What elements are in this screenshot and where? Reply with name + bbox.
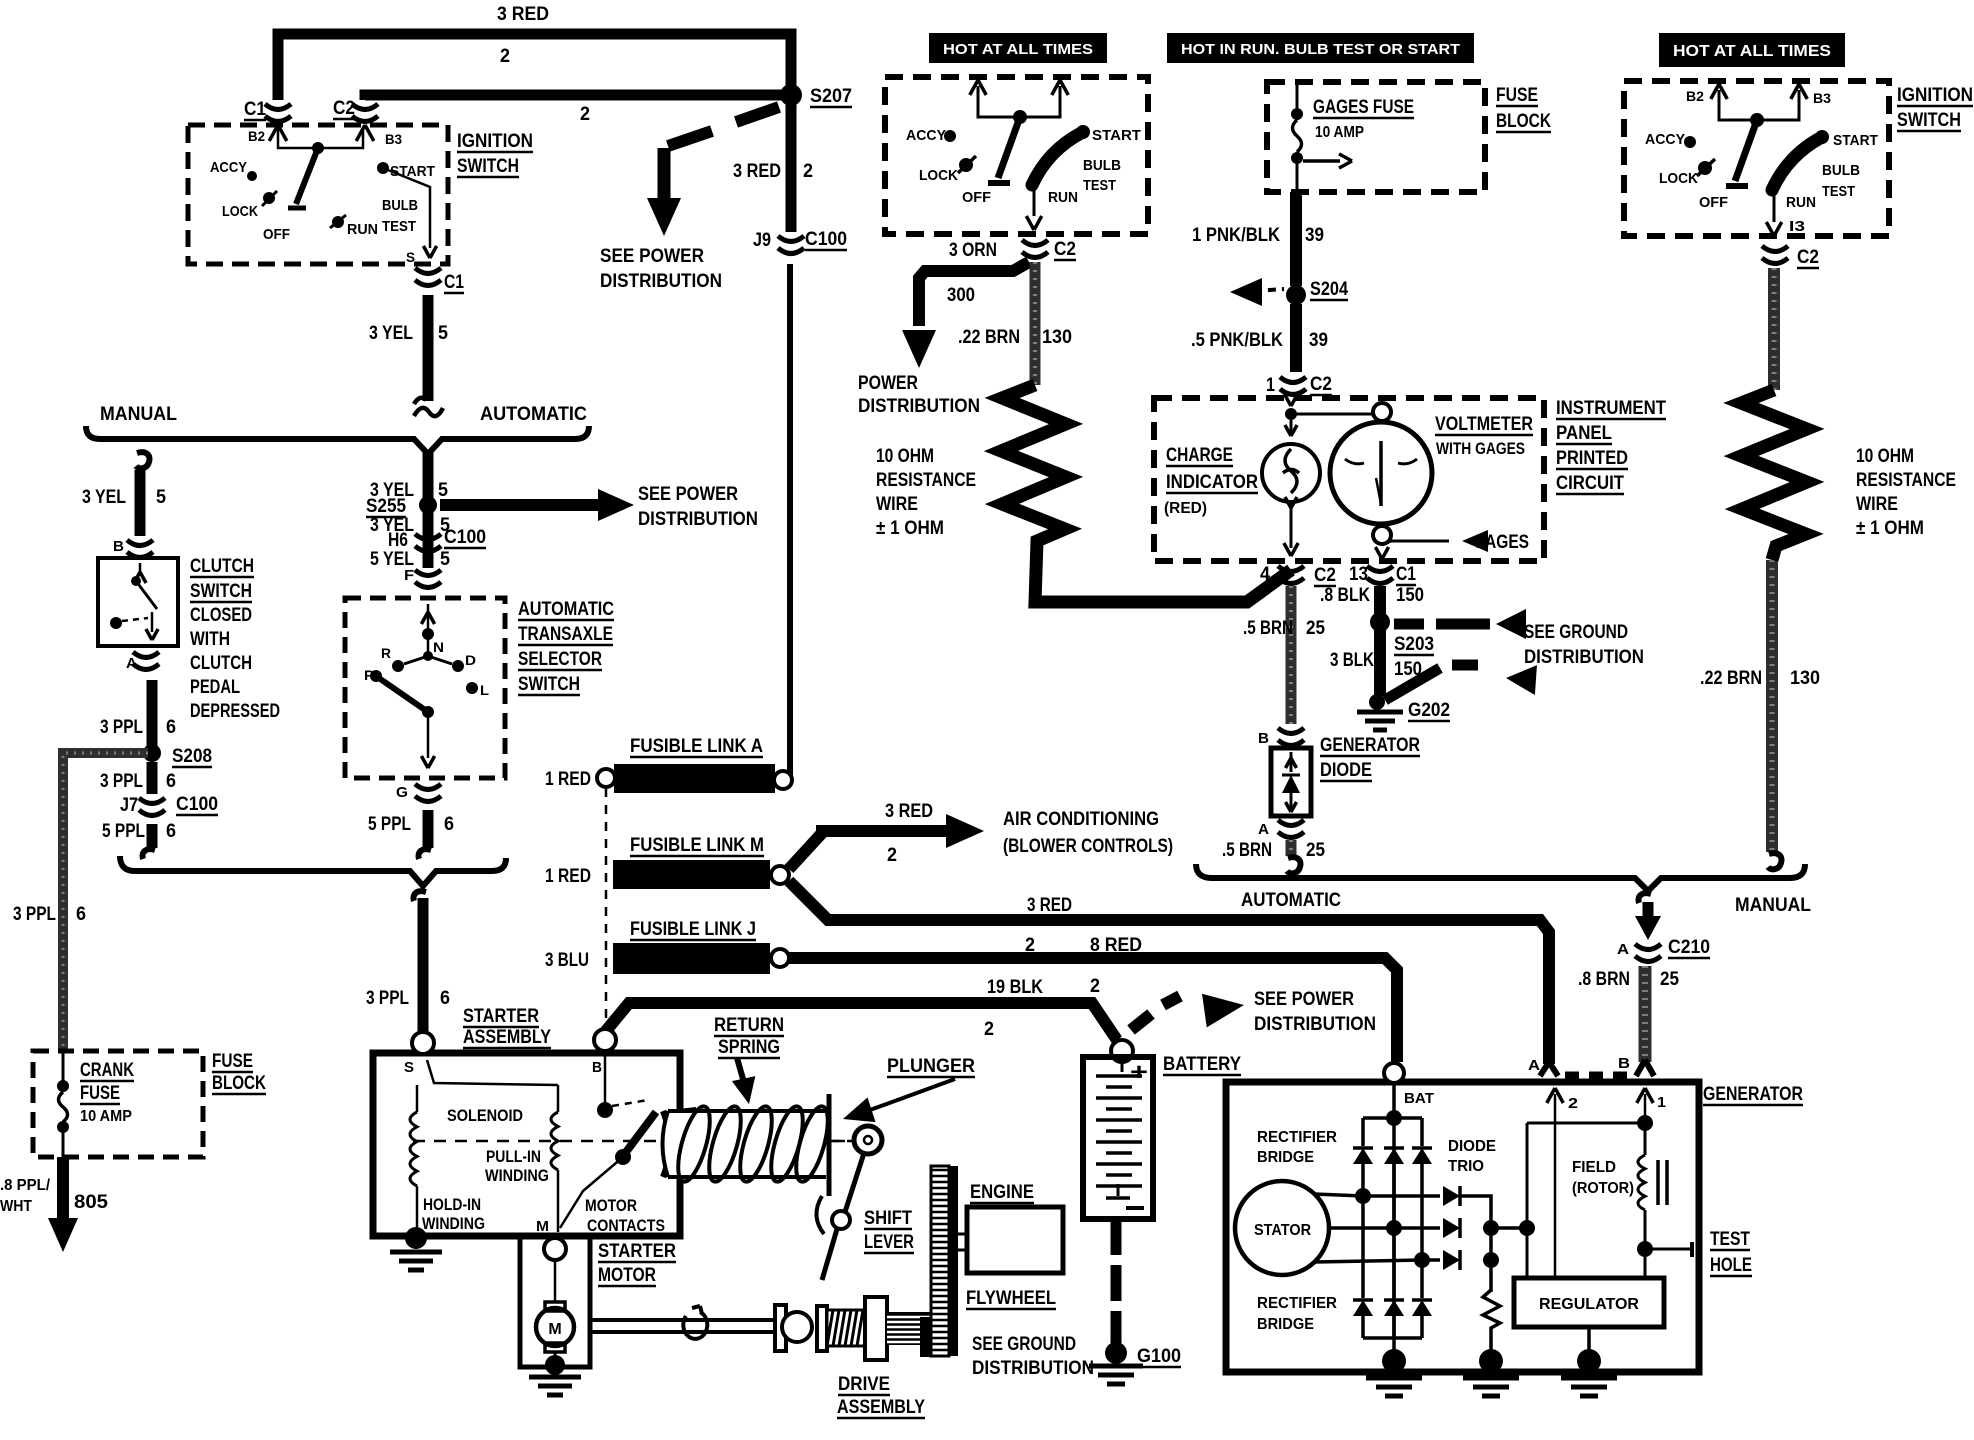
- label 10 OHM RESISTANCE WIRE +-1 OHM (right): [1856, 446, 1956, 539]
- svg-text:RUN: RUN: [347, 221, 378, 238]
- label P: [364, 667, 374, 683]
- svg-text:25: 25: [1306, 840, 1325, 861]
- terminal 2: [1547, 1088, 1578, 1112]
- wire 5 PPL transaxle: [423, 810, 434, 848]
- svg-text:150: 150: [1394, 659, 1422, 680]
- drive gear: [865, 1297, 887, 1360]
- svg-text:CLOSED: CLOSED: [190, 605, 252, 626]
- svg-text:H6: H6: [388, 530, 408, 551]
- svg-text:± 1 OHM: ± 1 OHM: [876, 518, 944, 539]
- label 150: [1396, 585, 1424, 606]
- svg-text:OFF: OFF: [263, 226, 290, 243]
- pin B2: [248, 125, 287, 144]
- svg-text:DISTRIBUTION: DISTRIBUTION: [972, 1358, 1094, 1379]
- svg-text:WITH: WITH: [190, 629, 230, 650]
- svg-text:MANUAL: MANUAL: [1735, 895, 1811, 916]
- ignition switch (middle) box: [885, 77, 1148, 234]
- regulator ground wire: [1587, 1327, 1591, 1356]
- label VOLTMETER WITH GAGES: [1435, 414, 1533, 458]
- svg-text:19 BLK: 19 BLK: [987, 977, 1043, 998]
- label 1 RED: [545, 769, 591, 790]
- label R: [381, 645, 391, 661]
- svg-text:SPRING: SPRING: [718, 1037, 780, 1058]
- svg-text:PLUNGER: PLUNGER: [887, 1056, 975, 1077]
- svg-text:FUSE: FUSE: [1496, 85, 1538, 106]
- svg-text:CLUTCH: CLUTCH: [190, 653, 252, 674]
- pin 13 connector C1: [1349, 564, 1416, 585]
- svg-text:TEST: TEST: [1083, 177, 1116, 194]
- svg-text:.5 PNK/BLK: .5 PNK/BLK: [1191, 330, 1283, 351]
- label FUSIBLE LINK M: [630, 835, 764, 856]
- label .8 PPL/ WHT: [0, 1177, 51, 1215]
- svg-text:5: 5: [438, 480, 448, 501]
- svg-text:6: 6: [76, 904, 86, 925]
- svg-text:3 YEL: 3 YEL: [82, 487, 126, 508]
- label RECTIFIER BRIDGE (lower): [1257, 1295, 1337, 1333]
- label 5: [440, 515, 450, 536]
- svg-text:VOLTMETER: VOLTMETER: [1435, 414, 1533, 435]
- generator grounds: [1366, 1349, 1617, 1396]
- label MANUAL: [100, 404, 177, 425]
- svg-text:SWITCH: SWITCH: [1897, 110, 1961, 131]
- svg-text:TEST: TEST: [1822, 183, 1855, 200]
- wire 3 PPL to starter S: [418, 898, 429, 1038]
- svg-text:WINDING: WINDING: [485, 1166, 549, 1185]
- contact ACCY: [210, 159, 257, 181]
- label FUSIBLE LINK A: [630, 736, 763, 757]
- svg-text:6: 6: [166, 717, 176, 738]
- wire below S208: [147, 762, 158, 794]
- label GENERATOR: [1703, 1084, 1803, 1105]
- drive splines: [887, 1312, 932, 1345]
- contact OFF: [263, 226, 290, 243]
- terminal BAT: [1384, 1063, 1434, 1107]
- connector C1 below ignition switch: [415, 268, 464, 293]
- bracket automatic/manual: [1196, 864, 1805, 891]
- ignition switch 1 rotor lever: [288, 148, 318, 208]
- terminal 1: [1637, 1088, 1666, 1111]
- contact OFF: [962, 189, 991, 206]
- wire .22 BRN manual side (gray): [1766, 560, 1778, 852]
- label 130: [1790, 668, 1820, 689]
- label 3 YEL: [369, 323, 413, 344]
- contact LOCK: [919, 156, 976, 184]
- svg-text:(BLOWER CONTROLS): (BLOWER CONTROLS): [1003, 836, 1173, 857]
- svg-text:ASSEMBLY: ASSEMBLY: [463, 1027, 551, 1048]
- generator diode: [1271, 748, 1311, 816]
- svg-text:BRIDGE: BRIDGE: [1257, 1316, 1314, 1333]
- svg-text:10 AMP: 10 AMP: [1315, 124, 1364, 141]
- label 25: [1660, 969, 1679, 990]
- svg-text:DISTRIBUTION: DISTRIBUTION: [638, 509, 758, 530]
- label 3 PPL (gray wire): [13, 904, 56, 925]
- label PLUNGER: [887, 1056, 975, 1077]
- wire 3 YEL to clutch switch: [135, 470, 146, 536]
- label AUTOMATIC: [480, 404, 587, 425]
- ignition switch (left) box: [188, 125, 448, 264]
- svg-text:10 OHM: 10 OHM: [876, 446, 934, 467]
- wire S203 to G202: [1374, 630, 1386, 696]
- contact LOCK: [222, 191, 277, 220]
- svg-text:S203: S203: [1394, 634, 1434, 655]
- splice S203: [1370, 612, 1434, 655]
- svg-text:3 RED: 3 RED: [885, 801, 933, 822]
- contact RUN: [1786, 194, 1816, 211]
- label BATTERY: [1163, 1054, 1241, 1075]
- svg-text:M: M: [548, 1321, 561, 1338]
- svg-text:L: L: [480, 682, 489, 698]
- resistance wire 10 ohm (right zigzag): [1741, 390, 1807, 560]
- label AIR CONDITIONING (BLOWER CONTROLS): [1003, 809, 1173, 857]
- ground distribution arrows: [1385, 609, 1537, 700]
- terminal A label: [1528, 1057, 1540, 1074]
- svg-text:S207: S207: [810, 86, 852, 107]
- label 25: [1306, 618, 1325, 639]
- svg-text:B: B: [1618, 1055, 1630, 1072]
- drive flange 2: [817, 1306, 827, 1351]
- svg-text:2: 2: [1568, 1095, 1578, 1112]
- label AUTOMATIC TRANSAXLE SELECTOR SWITCH: [518, 599, 614, 695]
- label DIODE TRIO: [1448, 1138, 1496, 1175]
- svg-text:2: 2: [887, 845, 897, 866]
- svg-text:BULB: BULB: [1822, 162, 1860, 179]
- svg-text:3 PPL: 3 PPL: [100, 771, 143, 792]
- label SEE POWER DISTRIBUTION: [638, 484, 758, 530]
- svg-text:25: 25: [1660, 969, 1679, 990]
- wire .5 BRN C2 to generator diode: [1286, 586, 1297, 724]
- svg-text:DRIVE: DRIVE: [838, 1374, 890, 1395]
- svg-text:ACCY: ACCY: [1645, 131, 1685, 148]
- svg-text:RESISTANCE: RESISTANCE: [1856, 470, 1956, 491]
- wire curl below bracket: [1639, 893, 1652, 903]
- svg-text:HOT AT ALL TIMES: HOT AT ALL TIMES: [943, 41, 1093, 58]
- svg-text:BLOCK: BLOCK: [1496, 111, 1551, 132]
- plunger dashed link: [413, 1140, 852, 1143]
- engine box: [957, 1207, 1063, 1273]
- ignition switch (right) box: [1624, 81, 1889, 236]
- ignition switch 2 internal bus: [978, 86, 1060, 124]
- label ENGINE: [970, 1182, 1034, 1203]
- fuse block (crank) box: [33, 1051, 203, 1157]
- svg-text:WHT: WHT: [0, 1198, 32, 1215]
- solenoid wiring S to pull-in: [417, 1060, 558, 1112]
- label .5 BRN: [1222, 840, 1272, 861]
- svg-text:DEPRESSED: DEPRESSED: [190, 701, 280, 722]
- rotor core bars: [1658, 1160, 1667, 1205]
- wire 3 RED (top feed to S207): [278, 34, 791, 100]
- contact RUN: [330, 215, 378, 238]
- svg-text:5: 5: [440, 549, 450, 570]
- wire to gages arrow: [1375, 530, 1488, 559]
- pin B3 arrow: [1052, 80, 1069, 95]
- svg-text:B: B: [592, 1059, 602, 1076]
- field rotor coil: [1637, 1123, 1653, 1278]
- svg-text:SEE POWER: SEE POWER: [600, 246, 704, 267]
- label RECTIFIER BRIDGE (upper): [1257, 1129, 1337, 1166]
- svg-text:SEE GROUND: SEE GROUND: [1524, 622, 1628, 643]
- svg-text:CHARGE: CHARGE: [1166, 445, 1233, 466]
- svg-text:CIRCUIT: CIRCUIT: [1556, 473, 1624, 494]
- wire battery to G100 (dashed): [1111, 1219, 1122, 1348]
- wire dashed to power distribution (battery): [1131, 988, 1246, 1030]
- svg-text:25: 25: [1306, 618, 1325, 639]
- terminal B label: [1618, 1055, 1630, 1072]
- connector B clutch switch: [113, 538, 153, 558]
- pin 4 connector C2: [1260, 564, 1336, 586]
- svg-text:PRINTED: PRINTED: [1556, 448, 1628, 469]
- battery terminal +: [1111, 1040, 1133, 1062]
- wire .5 PNK/BLK: [1290, 304, 1302, 372]
- svg-text:FIELD: FIELD: [1572, 1159, 1616, 1176]
- svg-text:S: S: [406, 249, 415, 265]
- svg-text:REGULATOR: REGULATOR: [1539, 1296, 1639, 1313]
- dashed connector line A-B: [1565, 1072, 1633, 1079]
- svg-text:F: F: [404, 567, 414, 584]
- generator BAT bus: [1363, 1083, 1422, 1356]
- label 39: [1309, 330, 1328, 351]
- label SEE GROUND DISTRIBUTION: [1524, 622, 1644, 668]
- svg-text:RECTIFIER: RECTIFIER: [1257, 1129, 1337, 1146]
- svg-text:5 PPL: 5 PPL: [102, 821, 145, 842]
- svg-text:STARTER: STARTER: [598, 1241, 676, 1262]
- svg-text:3 PPL: 3 PPL: [366, 988, 409, 1009]
- svg-text:C1: C1: [1396, 564, 1416, 585]
- svg-text:C100: C100: [444, 527, 486, 548]
- svg-text:39: 39: [1305, 225, 1324, 246]
- label TEST HOLE: [1710, 1229, 1752, 1276]
- pin I3: [1789, 218, 1805, 235]
- svg-text:S204: S204: [1310, 279, 1348, 300]
- wire 5 PPL below C100: [147, 824, 158, 848]
- label HOLD-IN WINDING: [422, 1195, 485, 1233]
- svg-text:3 RED: 3 RED: [1027, 895, 1072, 916]
- label IGNITION SWITCH (right): [1897, 85, 1973, 131]
- svg-text:5: 5: [438, 323, 448, 344]
- transaxle switch internals: [370, 604, 478, 768]
- svg-text:C2: C2: [333, 98, 355, 119]
- svg-text:PULL-IN: PULL-IN: [486, 1147, 541, 1166]
- svg-text:3 RED: 3 RED: [497, 4, 549, 25]
- wire end curl: [143, 849, 156, 859]
- connector A clutch switch: [126, 652, 159, 672]
- svg-text:A: A: [1258, 821, 1269, 838]
- svg-text:6: 6: [440, 988, 450, 1009]
- label FUSE BLOCK: [1496, 85, 1551, 132]
- wire 19 BLK battery to starter B: [605, 1003, 1117, 1040]
- svg-text:AIR CONDITIONING: AIR CONDITIONING: [1003, 809, 1159, 830]
- svg-text:MANUAL: MANUAL: [100, 404, 177, 425]
- svg-text:M: M: [536, 1218, 549, 1235]
- svg-text:AUTOMATIC: AUTOMATIC: [480, 404, 587, 425]
- flywheel gear: [920, 1166, 958, 1357]
- svg-text:.22 BRN: .22 BRN: [1700, 668, 1762, 689]
- connector C2 below right switch: [1762, 246, 1819, 268]
- diode trio output bus: [1460, 1196, 1535, 1292]
- svg-text:OFF: OFF: [1699, 194, 1728, 211]
- svg-text:CONTACTS: CONTACTS: [587, 1216, 665, 1235]
- svg-text:AUTOMATIC: AUTOMATIC: [1241, 890, 1341, 911]
- svg-text:RESISTANCE: RESISTANCE: [876, 470, 976, 491]
- drive ball: [782, 1312, 812, 1342]
- label AUTOMATIC: [1241, 890, 1341, 911]
- contact START: [1076, 125, 1141, 144]
- wire .8 PPL/WHT arrow down: [48, 1157, 78, 1252]
- svg-text:SELECTOR: SELECTOR: [518, 649, 602, 670]
- svg-text:G202: G202: [1408, 700, 1450, 721]
- svg-text:S208: S208: [172, 746, 212, 767]
- svg-text:BULB: BULB: [1083, 157, 1121, 174]
- svg-text:B2: B2: [1686, 88, 1704, 104]
- label 3 BLU: [545, 950, 589, 971]
- svg-text:C2: C2: [1054, 239, 1076, 260]
- connector A generator diode: [1258, 820, 1304, 838]
- ignition switch 2 rotor lever: [988, 117, 1020, 183]
- svg-text:SEE POWER: SEE POWER: [1254, 989, 1354, 1010]
- svg-text:SWITCH: SWITCH: [457, 156, 519, 177]
- label STARTER ASSEMBLY: [463, 1006, 551, 1048]
- wire 3 RED down to fusible link A: [787, 264, 793, 778]
- svg-text:CRANK: CRANK: [80, 1060, 134, 1081]
- contact BULB TEST: [1083, 157, 1121, 194]
- svg-text:5: 5: [156, 487, 166, 508]
- svg-text:C1: C1: [244, 99, 266, 120]
- svg-text:150: 150: [1396, 585, 1424, 606]
- label L: [480, 682, 489, 698]
- drive hatched coupling: [827, 1310, 865, 1346]
- svg-text:A: A: [1617, 941, 1629, 958]
- svg-text:LOCK: LOCK: [222, 203, 258, 220]
- svg-text:I3: I3: [1789, 218, 1805, 235]
- svg-text:INSTRUMENT: INSTRUMENT: [1556, 398, 1666, 419]
- label 1 RED: [545, 866, 591, 887]
- svg-text:1 RED: 1 RED: [545, 866, 591, 887]
- svg-text:INDICATOR: INDICATOR: [1166, 472, 1258, 493]
- label 19 BLK: [987, 977, 1043, 998]
- svg-text:B3: B3: [1813, 90, 1831, 106]
- label 6: [166, 717, 176, 738]
- label 6: [166, 771, 176, 792]
- svg-text:.5 BRN: .5 BRN: [1243, 618, 1293, 639]
- svg-text:BULB: BULB: [382, 197, 418, 214]
- test hole line: [1645, 1242, 1692, 1257]
- connector B generator diode: [1258, 728, 1304, 747]
- label .22 BRN: [958, 327, 1020, 348]
- label 150: [1394, 659, 1422, 680]
- rectifier bridge verticals: [1363, 1164, 1422, 1298]
- svg-text:SWITCH: SWITCH: [190, 581, 252, 602]
- label SEE POWER DISTRIBUTION: [600, 246, 722, 292]
- ignition switch 1 internal bus: [278, 128, 363, 154]
- svg-text:3 YEL: 3 YEL: [369, 323, 413, 344]
- ground G202: [1357, 694, 1450, 730]
- svg-text:TRANSAXLE: TRANSAXLE: [518, 624, 613, 645]
- svg-text:SEE GROUND: SEE GROUND: [972, 1334, 1076, 1355]
- connector C100 H6: [388, 527, 486, 552]
- svg-text:C2: C2: [1310, 374, 1332, 395]
- ignition switch 3 rotor lever: [1726, 120, 1757, 186]
- svg-text:STATOR: STATOR: [1254, 1222, 1311, 1239]
- svg-text:WIRE: WIRE: [1856, 494, 1898, 515]
- generator box: [1226, 1082, 1699, 1372]
- svg-text:ENGINE: ENGINE: [970, 1182, 1034, 1203]
- terminal B: [592, 1029, 616, 1076]
- label 805: [74, 1192, 108, 1213]
- svg-text:39: 39: [1309, 330, 1328, 351]
- svg-text:2: 2: [500, 46, 510, 67]
- label SEE POWER DISTRIBUTION: [1254, 989, 1376, 1035]
- svg-text:.8 BRN: .8 BRN: [1578, 969, 1630, 990]
- connector C100 J7: [120, 794, 218, 816]
- svg-text:C2: C2: [1314, 565, 1336, 586]
- connector C2 below middle switch: [1022, 239, 1076, 260]
- label N: [433, 639, 444, 655]
- solenoid ground: [390, 1227, 442, 1270]
- label 2: [500, 46, 510, 67]
- banner HOT AT ALL TIMES (right): [1659, 33, 1845, 67]
- svg-text:GAGES FUSE: GAGES FUSE: [1313, 97, 1414, 118]
- svg-text:SEE POWER: SEE POWER: [638, 484, 738, 505]
- wire RUN to C2: [1026, 186, 1041, 230]
- svg-text:3 BLK: 3 BLK: [1330, 650, 1374, 671]
- svg-text:B3: B3: [385, 131, 402, 147]
- svg-text:DISTRIBUTION: DISTRIBUTION: [600, 271, 722, 292]
- svg-text:IGNITION: IGNITION: [1897, 85, 1973, 106]
- svg-text:300: 300: [947, 285, 975, 306]
- label 3 BLK: [1330, 650, 1374, 671]
- svg-text:MOTOR: MOTOR: [598, 1265, 656, 1286]
- gages fuse element: [1291, 82, 1352, 192]
- svg-text:± 1 OHM: ± 1 OHM: [1856, 518, 1924, 539]
- svg-text:SHIFT: SHIFT: [864, 1208, 912, 1229]
- svg-text:AUTOMATIC: AUTOMATIC: [518, 599, 614, 620]
- svg-text:C100: C100: [176, 794, 218, 815]
- battery plus: [1130, 1059, 1148, 1086]
- label 3 RED: [497, 4, 549, 25]
- pin B2: [1686, 84, 1727, 104]
- svg-text:PANEL: PANEL: [1556, 423, 1612, 444]
- svg-text:SOLENOID: SOLENOID: [447, 1106, 523, 1125]
- wire S207 down to C100: [786, 100, 797, 232]
- svg-text:POWER: POWER: [858, 373, 918, 394]
- ground G100: [1089, 1342, 1181, 1384]
- splice S204: [1230, 278, 1348, 306]
- fusible link A: [597, 764, 792, 793]
- svg-text:C1: C1: [444, 272, 464, 293]
- label 5: [156, 487, 166, 508]
- starter assembly box: [373, 1053, 680, 1236]
- start lever curve: [1772, 137, 1822, 190]
- svg-text:G: G: [396, 784, 408, 801]
- hold-in winding coil: [410, 1112, 417, 1230]
- wire (gray) S208 to crank fuse: [63, 753, 148, 1051]
- fuse block (gages) box: [1267, 82, 1485, 192]
- transaxle selector switch box: [345, 598, 505, 778]
- wire automatic branch below bracket: [423, 452, 434, 568]
- label D: [465, 652, 476, 668]
- drive shaft: [592, 1306, 775, 1339]
- splice S255: [366, 496, 437, 517]
- label 5 PPL: [102, 821, 145, 842]
- contact ACCY: [1645, 131, 1696, 148]
- svg-text:8 RED: 8 RED: [1090, 935, 1142, 956]
- diode trio diodes: [1443, 1186, 1460, 1270]
- pin B2 arrow: [970, 80, 987, 95]
- svg-text:FLYWHEEL: FLYWHEEL: [966, 1288, 1056, 1309]
- label 3 PPL: [100, 771, 143, 792]
- svg-text:RUN: RUN: [1786, 194, 1816, 211]
- label FUSE BLOCK: [212, 1051, 266, 1094]
- svg-text:MOTOR: MOTOR: [585, 1196, 637, 1215]
